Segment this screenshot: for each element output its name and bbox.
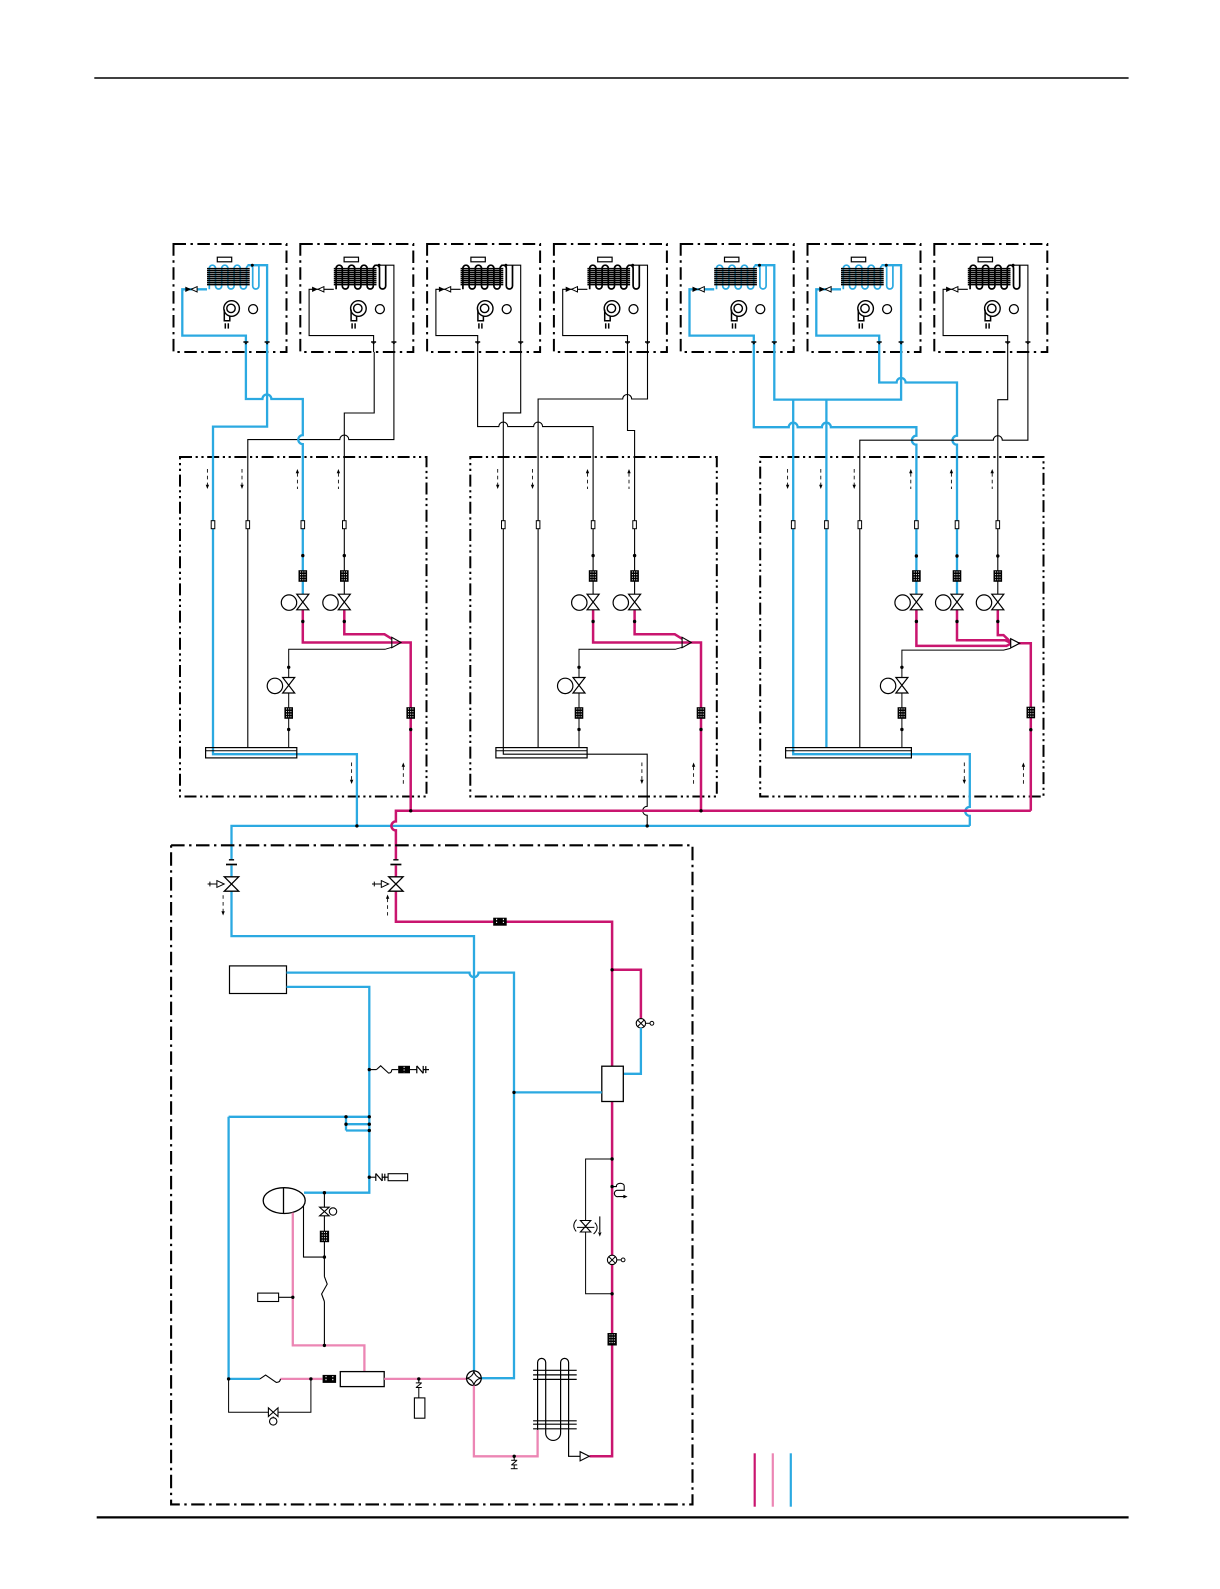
indoor unit 1 coil tube serpentine: [209, 265, 259, 289]
BS2 flow arrows bottom: [641, 763, 643, 781]
heat exchanger liquid line: [287, 987, 370, 1193]
BS3 bypass filter: [898, 707, 907, 719]
indoor unit 3 fan motor: [502, 305, 511, 314]
legend line suction return: [772, 1453, 774, 1506]
BS3 solenoid valves on ports 4 5 6: [895, 595, 910, 610]
indoor unit 2 enclosure: [300, 244, 413, 352]
BS3 gas outlet line: [1019, 643, 1031, 811]
BS2 port4 high-pressure gas line: [635, 610, 683, 639]
pressure regulator bypass loop: [586, 1159, 613, 1294]
BS3 port5 high-pressure gas line: [957, 610, 1011, 643]
indoor unit 3 fan: [477, 301, 493, 317]
indoor unit 4 expansion valve: [566, 287, 572, 292]
indoor unit 7 gas pipe: [1008, 265, 1028, 352]
BS1 filter on gas out: [406, 707, 415, 719]
filter on discharge line: [493, 918, 507, 926]
indoor unit 5 gas pipe: [755, 265, 775, 352]
BS1 filters on ports 3 4: [299, 570, 308, 582]
indoor unit 5 coil tube serpentine: [717, 265, 767, 289]
pipe unit1 gas to BS1 port1 and header and suction out: [213, 352, 357, 826]
BS1 bypass solenoid valve: [267, 678, 282, 693]
indoor unit 1 fan: [224, 301, 240, 317]
high pressure switch: [388, 1174, 408, 1181]
indoor unit 7 label box: [978, 257, 992, 262]
high pressure switch branch: [368, 1176, 371, 1179]
indoor unit 2 fan motor: [375, 305, 384, 314]
indoor unit 7 fan motor: [1009, 305, 1018, 314]
BS2 flow arrows top: [497, 469, 499, 485]
BS3 filter on gas out: [1027, 707, 1036, 719]
indoor unit 3 coil fins: [461, 269, 504, 285]
indoor unit 2 coil fins: [334, 269, 377, 285]
BS1 check valve: [392, 637, 401, 647]
suction capillary: [323, 1257, 325, 1277]
indoor unit 6 coil tube serpentine: [843, 265, 893, 289]
indoor unit 3 connection ticks: [475, 341, 480, 343]
accumulator bypass valve line: [323, 1193, 325, 1208]
indoor unit 3 coil tube serpentine: [463, 265, 513, 289]
indoor unit 7 coil tube serpentine: [970, 265, 1020, 289]
indoor unit 5 enclosure: [681, 244, 794, 352]
indoor unit 4 fan: [604, 301, 620, 317]
pipe unit3 gas to BS2 port1 and header and suction out: [503, 352, 647, 826]
indoor unit 7 connection ticks: [1005, 341, 1010, 343]
indoor unit 1 enclosure: [174, 244, 287, 352]
indoor unit 4 gas pipe: [628, 265, 648, 352]
BS1 port flanges: [211, 521, 215, 529]
BS2 check valve: [682, 637, 691, 647]
BS2 bypass filter: [575, 707, 584, 719]
low pressure sensor: [258, 1293, 279, 1301]
compressor discharge line pink: [384, 1378, 467, 1380]
legend line discharge gas: [754, 1453, 756, 1506]
BS unit 1 enclosure: [180, 457, 427, 797]
indoor unit 7 fan: [985, 301, 1001, 317]
BS3 bypass solenoid valve: [880, 678, 895, 693]
indoor unit 6 gas pipe: [882, 265, 902, 352]
indoor unit 5 liquid pipe: [690, 289, 754, 352]
indoor unit 6 fan: [858, 301, 874, 317]
BS2 port flanges: [502, 521, 506, 529]
flow direction arrow: [599, 1216, 601, 1232]
indoor unit 5 connection ticks: [751, 341, 756, 343]
BS unit 3 enclosure: [760, 457, 1043, 797]
indoor unit 1 expansion valve: [185, 287, 191, 292]
left suction return line: [229, 1117, 260, 1379]
indoor unit 4 connection ticks: [625, 341, 630, 343]
indoor unit 7 coil fins: [968, 269, 1011, 285]
heat exchanger gas line: [287, 973, 515, 1379]
BS1 junction dots: [301, 554, 304, 557]
indoor unit 1 fan motor: [249, 305, 258, 314]
indoor unit 6 connection ticks: [877, 341, 882, 343]
BS3 check valve: [1011, 639, 1020, 648]
accumulator inlet dot: [323, 1191, 326, 1194]
BS2 bypass line: [579, 647, 683, 747]
discharge line components: [610, 1157, 613, 1160]
indoor unit 1 label box: [217, 257, 231, 262]
main high-pressure gas line magenta: [391, 811, 1030, 859]
indoor unit 7 enclosure: [934, 244, 1047, 352]
BS2 filter on gas out: [697, 707, 706, 719]
BS1 bypass line with solenoid valve: [289, 647, 393, 747]
pipe BS3 port2 drop: [825, 400, 827, 748]
indoor unit 2 label box: [344, 257, 358, 262]
subcooler to gas line blue: [514, 1091, 602, 1093]
oil return valve: [268, 1408, 278, 1417]
pipe unit3 liquid to BS2 port3: [478, 352, 593, 594]
charge port: [513, 1456, 515, 1460]
pipe unit1 liquid to BS1 port3: [246, 352, 303, 594]
branch line blue: [623, 1028, 641, 1074]
indoor unit 6 coil fins: [841, 269, 884, 285]
pipe unit6 liquid to BS3 port5: [879, 352, 957, 594]
BS3 flow arrows top: [787, 469, 789, 485]
indoor unit 4 enclosure: [554, 244, 667, 352]
indoor unit 3 enclosure: [427, 244, 540, 352]
indoor unit 6 expansion valve: [819, 287, 825, 292]
indoor unit 6 enclosure: [808, 244, 921, 352]
indoor unit 4 liquid pipe: [563, 289, 628, 352]
indoor unit 4 label box: [598, 257, 612, 262]
indoor unit 3 gas pipe: [501, 265, 521, 352]
indoor unit 5 fan: [731, 301, 747, 317]
branch solenoid valve: [636, 1019, 645, 1028]
BS3 bypass line: [902, 648, 1011, 747]
indoor unit 4 fan motor: [629, 305, 638, 314]
indoor unit 5 fan motor: [756, 305, 765, 314]
outdoor heat exchanger label box: [230, 966, 287, 994]
pipe unit7 liquid to BS3 port6: [998, 352, 1008, 594]
subcool heat exchanger rungs: [229, 1117, 370, 1131]
BS2 junction dots: [591, 554, 594, 557]
indoor unit 7 liquid pipe: [943, 289, 1008, 352]
BS1 solenoid valves on ports 3 4: [281, 595, 296, 610]
accumulator: [263, 1188, 305, 1214]
pressure relief branch: [368, 1068, 371, 1071]
BS2 port3 high-pressure gas line: [593, 610, 701, 811]
indoor unit 2 gas pipe: [374, 265, 394, 352]
accumulator outlet line: [304, 1206, 325, 1257]
pipe unit2 liquid to BS1 port4: [344, 352, 374, 594]
BS3 port6 high-pressure gas line: [998, 610, 1011, 643]
indoor unit 3 label box: [471, 257, 485, 262]
subcooler vessel: [602, 1066, 624, 1101]
pipe unit4 liquid to BS2 port4: [628, 352, 635, 594]
outdoor unit enclosure: [171, 845, 692, 1504]
gas valve flow arrow: [222, 895, 224, 911]
BS3 filters on ports 4 5 6: [912, 570, 921, 582]
oil separator return branch magenta: [612, 970, 641, 1019]
pipe unit7 gas to BS3 port3: [860, 352, 1028, 748]
indoor unit 4 coil fins: [587, 269, 630, 285]
junction dots on discharge main: [409, 809, 412, 812]
indoor unit 1 connection ticks: [243, 341, 248, 343]
hx outlet check valve: [580, 1452, 589, 1461]
indoor unit 1 liquid pipe: [182, 289, 246, 352]
BS1 port4 high-pressure gas line: [344, 610, 392, 639]
indoor unit 3 expansion valve: [439, 287, 445, 292]
oil return capillary symbol: [610, 1185, 613, 1188]
indoor unit 3 liquid pipe: [436, 289, 478, 352]
indoor unit 6 fan motor: [883, 305, 892, 314]
pressure regulating valve: [580, 1221, 590, 1233]
oil return loop: [229, 1379, 311, 1412]
four way valve: [467, 1371, 482, 1386]
junction dots on suction main: [355, 824, 358, 827]
pipe unit5 liquid to BS3 port4: [754, 352, 917, 594]
indoor unit 6 liquid pipe: [816, 289, 879, 352]
four way valve to hx line pink: [474, 1386, 538, 1457]
BS3 junction dots: [915, 554, 918, 557]
BS3 port4 high-pressure gas line: [916, 610, 1011, 646]
indoor unit 2 expansion valve: [312, 287, 318, 292]
pipe unit2 gas to BS1 port2: [248, 352, 394, 748]
indoor unit 1 gas pipe: [248, 265, 268, 352]
BS2 bypass solenoid valve: [558, 678, 573, 693]
BS2 filters on ports 3 4: [589, 570, 598, 582]
indoor unit 5 expansion valve: [693, 287, 699, 292]
subcool hx junction dots: [344, 1115, 347, 1118]
legend line suction gas: [790, 1453, 792, 1506]
BS1 port3 high-pressure gas line: [303, 610, 411, 811]
indoor unit 5 coil fins: [714, 269, 757, 285]
filter on liquid main: [608, 1333, 617, 1346]
BS1 header: [206, 748, 297, 758]
BS unit 2 enclosure: [470, 457, 717, 797]
main suction gas line blue: [232, 826, 970, 859]
accumulator liquid return line pink: [293, 1213, 365, 1372]
BS2 header: [496, 748, 587, 758]
BS3 flow arrows bottom: [963, 763, 965, 781]
plate heat exchanger serpentine: [538, 1358, 581, 1456]
indoor unit 2 fan: [351, 301, 367, 317]
indoor unit 5 label box: [725, 257, 739, 262]
BS1 bypass filter: [284, 707, 293, 719]
bottom rule: [97, 1516, 1129, 1518]
pipe units5-6 shared gas header line: [774, 352, 901, 400]
indoor unit 2 connection ticks: [371, 341, 376, 343]
BS2 solenoid valves on ports 3 4: [572, 595, 587, 610]
liquid shut-off valve: [393, 859, 398, 861]
gas shut-off valve: [229, 859, 234, 861]
compressor: [340, 1372, 384, 1387]
indoor unit 1 coil fins: [207, 269, 250, 285]
plate heat exchanger fins: [533, 1369, 577, 1371]
BS3 header: [786, 748, 912, 758]
indoor unit 6 label box: [851, 257, 865, 262]
compressor suction line: [280, 1378, 311, 1380]
BS3 port flanges: [791, 521, 795, 529]
BS1 flow arrows top: [206, 469, 208, 485]
BS1 flow arrows bottom: [351, 763, 353, 781]
discharge service port: [418, 1379, 420, 1383]
indoor unit 7 expansion valve: [946, 287, 952, 292]
indoor unit 2 coil tube serpentine: [336, 265, 386, 289]
branch solenoid valve 2: [607, 1255, 616, 1264]
bypass filter: [320, 1231, 329, 1243]
liquid valve flow arrow: [387, 899, 389, 916]
indoor unit 2 liquid pipe: [309, 289, 374, 352]
pipe BS3 port1 drop and header and suction out: [793, 400, 970, 826]
top rule: [94, 77, 1128, 79]
suction filter: [323, 1375, 337, 1383]
indoor unit 4 coil tube serpentine: [590, 265, 640, 289]
pipe unit4 gas to BS2 port2: [538, 352, 647, 748]
discharge muffler: [414, 1398, 425, 1418]
